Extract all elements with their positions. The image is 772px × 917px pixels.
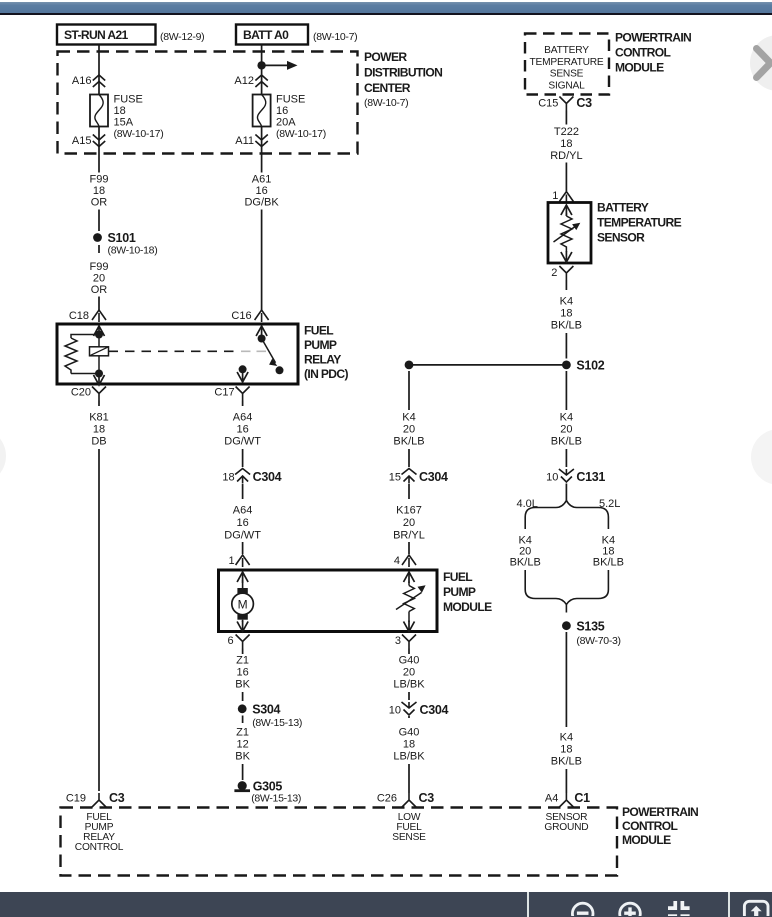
wire to C18 [98,297,100,312]
wire label Z1 12 BK [235,727,250,763]
wire label F99 18 OR [90,174,109,209]
wire label F99 20 OR [90,261,109,296]
connector pin 3 [395,635,416,649]
wire to pin 1 [242,542,244,554]
relay actuation dashed link [109,350,267,352]
powertrain control module dashed box (bottom) [61,805,699,876]
wire 5.2L branch lower [607,570,609,590]
toolbar icon export [744,901,768,917]
power distribution center dashed box [58,50,443,154]
wire S102 down left branch [408,371,410,410]
wire label G40 20 LB/BK [393,655,425,691]
wire to C16 [261,210,263,312]
pin function label low fuel sense [392,812,426,843]
motor M fuel pump [232,572,254,632]
connector sensor pin 1 [552,190,573,204]
nav chevron right [757,49,770,78]
connector C304 pin 18 [222,469,281,485]
wire label K4 20 BK/LB right [551,412,582,448]
pin function label sensor ground [544,812,588,833]
connector C17 [214,387,249,401]
wire to A4 [565,769,567,793]
wire to S102 [565,280,567,359]
engine split branch merge bottom [525,590,608,613]
connector A4 / C1 [545,791,590,807]
wire label K4 18 BK/LB 5.2L [593,535,624,569]
wire A64 upper [242,401,244,468]
relay output node to C17 [237,365,248,382]
wire G40 to C26 [408,716,410,793]
wire label A64 16 DG/WT [224,412,261,448]
connector C16 [231,310,268,322]
connector A16 [72,75,105,87]
viewer top bar [0,2,772,13]
right nav circle lower [751,429,772,485]
connector C19 / C3 [66,791,125,807]
wire label K4 20 BK/LB 4.0L [510,535,541,569]
wire label K167 20 BR/YL [393,505,425,542]
connector C26 / C3 [377,791,434,807]
wire to C131 [565,449,567,467]
splice S101 [93,231,157,257]
fuel pump module box [219,570,493,632]
wire BATT to junction [261,45,263,66]
wire Z1 short [242,649,244,702]
wire fuse to A61 label [261,154,263,173]
splice S304 [238,703,302,730]
wire fuse to F99 label [98,154,100,173]
wire label K4 20 BK/LB left [393,412,424,448]
wire label K4 18 BK/LB [551,296,582,332]
connector C304 pin 10 [389,702,449,717]
wire label K4 18 BK/LB bottom [551,732,582,768]
connector C131 pin 10 [546,469,605,484]
connector C15 / C3 [538,96,592,111]
connector pin 6 [227,635,249,649]
toolbar icon zoom in [620,903,641,917]
relay K1 fuel pump relay box [57,324,348,385]
ground G305 [234,780,301,805]
wire C15 to T222 label [565,111,567,125]
wire label G40 18 LB/BK [393,727,425,763]
fuse F5 20A [253,94,326,154]
connector pin 1 [228,555,249,567]
wire ST-RUN to fuse [98,45,100,95]
toolbar icon zoom out [572,903,593,917]
wire to pin 4 [408,542,410,554]
splice S102 [562,359,605,373]
wire below C131 [565,484,567,502]
relay coil branch [65,326,109,385]
box BATT A0 [236,25,357,45]
wire label A61 16 DG/BK [244,174,279,209]
wire 4.0L branch [524,517,526,529]
wire S102 crossover [405,361,567,370]
left nav circle [0,428,6,484]
connector C304 pin 15 [389,469,448,485]
wire 5.2L branch [607,517,609,529]
connector A15 [72,135,105,148]
wire K81 down to C19 [98,401,100,792]
wire to sensor pin 1 [565,163,567,192]
connector A11 [235,135,268,148]
thermistor element [554,205,581,262]
node junction with feed arrow [257,61,297,95]
wire 4.0L branch lower [524,570,526,590]
battery temperature sensor box [548,201,682,264]
wire to S101 [98,210,100,232]
splice S135 [562,620,621,648]
box ST-RUN A21 [57,25,204,45]
wire to C304 pin 15 [408,449,410,467]
connector C20 [71,387,106,401]
pin function label fuel pump relay control [75,812,124,853]
relay switch contacts [256,326,283,374]
connector A12 [234,75,267,87]
wire label A64 16 DG/WT lower [224,505,261,542]
wire G40 short [408,649,410,701]
connector sensor pin 2 [551,266,573,280]
connector pin 4 [394,555,416,567]
wire A64 lower [242,484,244,499]
fuse F6 15A [90,94,163,154]
viewer bottom toolbar [0,892,772,917]
connector C18 [69,310,106,322]
wire label T222 18 RD/YL [550,126,582,162]
wire K167 upper [408,484,410,499]
engine split branch top [517,498,621,517]
toolbar icon fit to screen [668,901,690,916]
fuel level sender variable resistor [396,572,426,632]
wire S135 down [565,632,567,727]
wire label Z1 16 BK [235,655,250,691]
wire label K81 18 DB [89,412,109,448]
right nav circle with chevron [750,35,772,91]
wire Z1 to ground [242,764,244,780]
wire S102 down right [565,371,567,410]
powertrain control module dashed box (top right) [525,31,691,95]
